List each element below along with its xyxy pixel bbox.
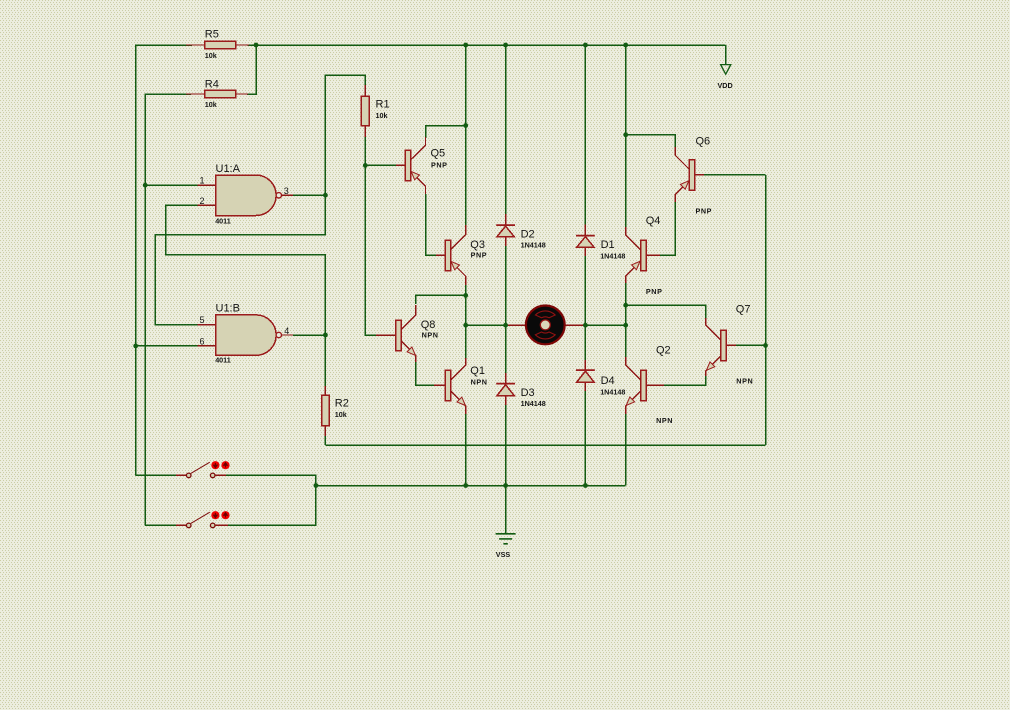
wire R5 right to rail corner and down to R4 [247, 45, 256, 94]
transistor Q4 [626, 215, 663, 296]
svg-text:U1:B: U1:B [216, 303, 240, 315]
junction motor line right node [623, 323, 628, 328]
power symbol VDD [718, 65, 733, 90]
svg-text:4011: 4011 [215, 355, 231, 364]
ground symbol VSS [496, 534, 516, 559]
svg-text:Q5: Q5 [431, 148, 446, 160]
motor (DC motor symbol) [526, 306, 565, 345]
gate U1:A 4011 NAND [198, 163, 294, 226]
wire Q5 emitter down to Q3 base [426, 194, 439, 255]
diode D3 1N4148 [496, 373, 546, 408]
svg-text:R4: R4 [205, 79, 219, 91]
resistor R2 [322, 386, 349, 436]
wire D3 anode down to VSS node [505, 405, 507, 534]
wire bus A to SW1 [136, 474, 178, 476]
junction motor line / D1 branch [583, 323, 588, 328]
svg-text:PNP: PNP [696, 207, 713, 216]
wire SW1 output to ground-row node [226, 475, 316, 525]
wire D2 anode to motor-left node [505, 246, 507, 375]
wire top VDD rail y=45 [248, 44, 726, 46]
svg-text:D2: D2 [521, 228, 535, 240]
svg-text:U1:A: U1:A [216, 163, 241, 175]
svg-text:VSS: VSS [496, 550, 511, 559]
svg-text:1: 1 [199, 176, 204, 186]
svg-text:10k: 10k [335, 410, 347, 419]
wire right H-bridge bus x=625.7 (rail to Q4 collector) [625, 45, 627, 228]
junction ground row / VSS stem [503, 483, 508, 488]
wire Q3 emitter to node 295.4 [465, 285, 467, 325]
svg-text:VDD: VDD [718, 81, 733, 90]
svg-text:5: 5 [199, 315, 204, 325]
wire U1:A pin1 from bus B [145, 184, 197, 186]
diode D1 1N4148 [576, 225, 625, 261]
wire R2 bottom to lower rail [324, 436, 326, 445]
svg-text:D3: D3 [521, 387, 535, 399]
wire D4 anode down to ground row [584, 391, 586, 486]
svg-text:R2: R2 [335, 397, 349, 409]
svg-text:1N4148: 1N4148 [521, 399, 546, 408]
wire Q1 collector up to motor node [465, 325, 467, 358]
wire Q6 emitter down to Q4 base [658, 202, 675, 255]
junction motor line / D2 branch [503, 323, 508, 328]
wire Q2 emitter down to ground row corner [625, 414, 627, 486]
transistor Q1 [434, 357, 488, 416]
svg-text:Q2: Q2 [656, 344, 671, 356]
junction VDD rail / D2 branch [503, 43, 508, 48]
svg-text:Q4: Q4 [646, 215, 661, 227]
wire motor line left segment [466, 324, 506, 326]
junction Q6 collector node [623, 132, 628, 137]
junction R5/R4 corner on VDD rail [254, 43, 259, 48]
junction ground row / D4 branch [583, 483, 588, 488]
transistor Q3 [436, 225, 487, 286]
wire U1:A output node down to y=234.7 cross wire [155, 195, 325, 325]
svg-text:Q3: Q3 [470, 239, 485, 251]
svg-text:4011: 4011 [215, 217, 231, 226]
wire VSS stem [505, 486, 507, 534]
svg-text:10k: 10k [205, 51, 217, 60]
svg-text:D1: D1 [601, 239, 615, 251]
wire bus B to SW2 [145, 524, 178, 526]
junction Q4 emitter / Q7 collector node [623, 303, 628, 308]
resistor R5 [186, 29, 249, 60]
svg-text:6: 6 [199, 337, 204, 347]
wire R1 node down to Q8 base [365, 165, 378, 335]
svg-text:NPN: NPN [471, 378, 488, 387]
resistor R4 [186, 79, 248, 109]
junction switch output node [314, 483, 319, 488]
svg-text:PNP: PNP [646, 287, 663, 296]
svg-text:PNP: PNP [431, 160, 448, 169]
wire right vertical bus x=765.5 [765, 175, 767, 445]
svg-text:10k: 10k [205, 100, 217, 109]
switch SW2 [176, 511, 230, 528]
svg-text:1N4148: 1N4148 [600, 388, 625, 397]
junction Q7 base on right bus [763, 343, 768, 348]
wire Q6 base to right vertical bus [704, 174, 766, 176]
wire lower rail y=445.2 [325, 444, 765, 446]
junction U1:A output node [323, 193, 328, 198]
diode D4 1N4148 [576, 360, 625, 397]
svg-text:Q7: Q7 [736, 304, 751, 316]
svg-text:10k: 10k [376, 111, 388, 120]
svg-text:PNP: PNP [471, 251, 488, 260]
wire Q5 collector to left H-bridge bus [426, 126, 466, 139]
wire Q1 emitter down to ground row [465, 414, 467, 486]
wire VDD drop to power symbol [725, 45, 727, 65]
svg-text:R1: R1 [376, 98, 390, 110]
wire Q7 base to right vertical bus [736, 344, 766, 346]
wire ground row y=485.5 [316, 485, 626, 487]
gate U1:B 4011 NAND [198, 303, 294, 365]
wire U1:A pin2 to U1:B output node [166, 205, 326, 335]
wire R1 bottom to node [364, 137, 366, 165]
junction Q3 emitter / Q8 collector node [463, 293, 468, 298]
wire Q7 collector link [626, 305, 706, 319]
wire U1:A output node to R1 top [293, 75, 365, 195]
wire U1:B pin6 from bus A [136, 345, 198, 347]
svg-text:NPN: NPN [656, 416, 673, 425]
svg-text:Q6: Q6 [696, 136, 711, 148]
wire Q8 emitter down to Q1 base [416, 362, 436, 385]
junction Q5 collector node [463, 123, 468, 128]
switch SW1 [176, 461, 230, 478]
svg-text:D4: D4 [601, 375, 615, 387]
svg-text:4: 4 [284, 326, 289, 336]
resistor R1 [361, 85, 389, 137]
junction U1:B output node [323, 333, 328, 338]
diode D2 1N4148 [496, 214, 546, 250]
svg-text:Q8: Q8 [421, 319, 436, 331]
wire motor line right segment [585, 324, 625, 326]
junction VDD rail / left H-bridge bus [463, 43, 468, 48]
wire Q8 collector to node 295.4 [416, 295, 466, 304]
junction VDD rail / D1 branch [583, 43, 588, 48]
junction ground row / Q1 emitter [463, 483, 468, 488]
svg-text:1N4148: 1N4148 [600, 251, 625, 260]
svg-text:R5: R5 [205, 29, 219, 41]
svg-text:NPN: NPN [736, 376, 753, 385]
junction U1:B pin6 / bus A [133, 344, 138, 349]
wire Q4 emitter down to Q7-base node [625, 283, 627, 325]
junction motor line left node [463, 323, 468, 328]
wire Q7 emitter down to Q2 base [662, 376, 706, 385]
wire left bus A x=135.7 (R5 to SW1) [136, 45, 192, 475]
wire D1/D4 branch x=585.4 top [584, 45, 586, 227]
svg-text:NPN: NPN [422, 331, 439, 340]
junction U1:A pin1 / bus B [143, 183, 148, 188]
wire Q6 collector link to right bus [626, 135, 676, 148]
wire left H-bridge bus x=465.7 upper (rail to Q3 collector) [465, 45, 467, 226]
transistor Q7 [706, 304, 753, 386]
transistor Q5 [396, 137, 448, 196]
svg-text:2: 2 [199, 196, 204, 206]
motor pin right [565, 324, 585, 326]
wire D1 anode to motor-right node [584, 256, 586, 362]
transistor Q6 [675, 136, 712, 216]
wire Q2 collector up to motor node [625, 325, 627, 357]
svg-text:3: 3 [284, 186, 289, 196]
junction VDD rail / right H-bridge bus [623, 43, 628, 48]
transistor Q2 [626, 344, 673, 425]
wire D2/D3 branch x=505.6 top [505, 45, 507, 216]
motor pin left [506, 324, 526, 326]
wire left bus B x=145.2 (R4 to SW2) [145, 94, 191, 525]
svg-text:Q1: Q1 [470, 365, 485, 377]
wire R1 node to Q5 base [365, 164, 398, 166]
svg-text:1N4148: 1N4148 [521, 241, 546, 250]
transistor Q8 [376, 305, 439, 364]
junction R1 bottom / Q5 Q8 base node [363, 163, 368, 168]
wire U1:B output to R2 [293, 335, 325, 387]
